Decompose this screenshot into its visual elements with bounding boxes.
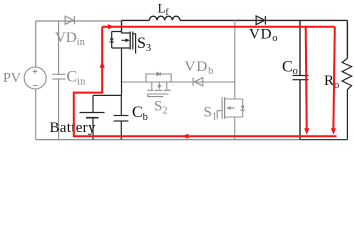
- S3 channel bar: [129, 32, 131, 50]
- diode VDo: [256, 16, 265, 25]
- wire Cin branch top: [58, 21, 60, 74]
- capacitor Cb branch top: [120, 95, 122, 115]
- capacitor Cb plates: [114, 116, 129, 122]
- S1 source lead to bottom: [234, 117, 236, 140]
- S3 stubs: [122, 33, 131, 48]
- battery top lead: [92, 95, 94, 112]
- battery long plate: [80, 112, 105, 114]
- right edge wire top: [346, 20, 348, 58]
- S1 gate lead: [217, 111, 222, 119]
- S2 gate bar: [150, 93, 168, 95]
- capacitor Cin: [52, 74, 65, 79]
- S3 gate bar: [132, 32, 134, 50]
- S2 loop diode: [157, 72, 160, 76]
- resistor Ro zigzag: [342, 58, 352, 89]
- diode VDb: [193, 78, 203, 86]
- red arrow up on left vertical: [100, 61, 105, 67]
- battery short plate: [86, 117, 99, 119]
- S1 mid stub: [231, 107, 235, 109]
- red arrow left on bottom line: [182, 134, 188, 139]
- battery bottom lead: [92, 118, 94, 140]
- wire Co branch bottom: [299, 80, 301, 140]
- S3 body diode branch: [112, 32, 122, 49]
- red wire drop to Co: [306, 27, 307, 129]
- wire S2/VDb horizontal line: [121, 81, 235, 83]
- S1 arrow: [226, 106, 230, 110]
- red arrow right on top line: [108, 24, 114, 29]
- top rail gray segment (PV/VDin side): [36, 20, 122, 22]
- svg-text:Battery: Battery: [50, 120, 96, 136]
- S2 gate lead: [148, 94, 163, 97]
- battery top wire: [93, 94, 122, 96]
- transistor S1 channel bar: [224, 97, 226, 119]
- S3 gate lead: [133, 34, 136, 54]
- PV minus sign: [33, 85, 37, 87]
- red arrow down to Ro: [331, 128, 336, 134]
- S1 top stub: [225, 98, 243, 100]
- red wire right drop to Ro: [333, 27, 334, 129]
- S3 arrow: [125, 38, 129, 42]
- wire Co branch top: [299, 20, 301, 75]
- top rail black segment: [122, 19, 348, 21]
- S1 body diode wire: [242, 99, 244, 117]
- wire Cin branch bottom: [58, 79, 60, 140]
- wire PV branch bottom: [35, 89, 37, 140]
- bottom rail dark segment: [300, 139, 347, 141]
- capacitor Co: [293, 76, 309, 80]
- S1 bottom stub: [225, 116, 243, 118]
- S2 arrow: [157, 85, 161, 89]
- right edge wire bottom: [346, 90, 348, 140]
- red wire top line: [102, 26, 335, 28]
- svg-text:PV: PV: [3, 71, 21, 86]
- red wire left step around battery: [74, 27, 337, 137]
- S1 body diode glyph: [241, 106, 245, 110]
- bottom rail gray: [36, 139, 300, 141]
- S3 source lead down: [121, 48, 123, 95]
- transistor S3 drain lead: [121, 20, 123, 33]
- red arrow down to Co: [304, 128, 309, 134]
- red current path: [74, 27, 337, 137]
- switch S2 antiparallel diode loop: [146, 74, 171, 82]
- diode VDin: [65, 16, 74, 24]
- inductor Lf: [149, 16, 180, 20]
- transistor S2 stubs: [152, 82, 167, 90]
- S2 channel bar: [147, 89, 170, 91]
- S1 gate bar: [221, 97, 223, 119]
- wire PV branch top: [35, 21, 37, 67]
- S3 body diode glyph: [110, 38, 114, 41]
- PV plus sign: [33, 69, 37, 73]
- wire S1 branch from top rail: [234, 20, 236, 99]
- capacitor Cb bottom lead: [120, 121, 122, 140]
- source PV circle: [24, 67, 46, 89]
